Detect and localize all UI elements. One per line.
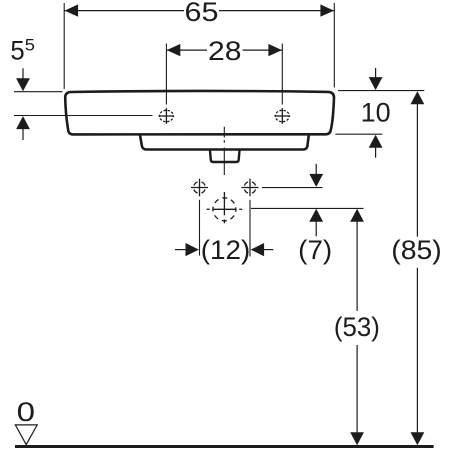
reference line at tap hole level (5.5 dim lower leader): [14, 115, 153, 117]
washbasin lower tier outline: [140, 134, 309, 149]
arrow left of (12) dimension: [175, 249, 187, 251]
reference line top right (basin rim level for 10 and 85): [338, 90, 424, 92]
svg-text:10: 10: [361, 98, 391, 128]
datum triangle (zero level symbol): [15, 425, 37, 445]
up arrow of (7) dimension: [309, 209, 323, 222]
svg-text:(85): (85): [391, 235, 442, 265]
extension line left of 65 dimension: [63, 3, 65, 89]
arrow right of (12) dimension: [251, 243, 265, 256]
arrowhead left of 65: [65, 4, 79, 16]
down arrow of 10 dimension: [375, 68, 377, 78]
right tap hole: [275, 110, 289, 121]
down arrow of 5.5 dimension: [22, 68, 24, 79]
extension line right of 65 dimension: [333, 3, 335, 88]
arrowhead right of 65: [320, 4, 334, 16]
leader line at trap hole level: [251, 207, 364, 209]
(53) dimension line: [350, 209, 364, 222]
svg-text:65: 65: [185, 0, 219, 27]
drain trap box: [210, 149, 240, 162]
reference line at basin top left (5.5 dim upper): [14, 91, 63, 93]
up arrow of 5.5 dimension: [16, 116, 30, 129]
dimension line 65: [64, 10, 184, 12]
left anchor hole: [194, 182, 206, 194]
reference line at basin bottom right (10 dim lower): [335, 133, 382, 135]
drain trap hole: [213, 198, 236, 221]
svg-text:(7): (7): [298, 235, 332, 265]
down arrow of (7) dimension: [315, 164, 317, 175]
vertical centerline of basin: [223, 127, 225, 138]
arrowhead right of 28: [268, 44, 282, 56]
arrowhead left of 28: [167, 44, 181, 56]
extension line left of 28 dimension (above left tap hole): [165, 44, 167, 105]
washbasin body outline: [65, 91, 334, 134]
floor line: [15, 445, 434, 448]
left tap hole: [159, 110, 173, 121]
right anchor hole: [244, 182, 256, 194]
svg-text:5: 5: [25, 36, 35, 55]
extension line below left anchor hole: [199, 200, 201, 256]
svg-text:(12): (12): [201, 235, 251, 265]
svg-text:(53): (53): [334, 312, 380, 342]
svg-text:0: 0: [17, 397, 35, 427]
extension line below right anchor hole: [249, 200, 251, 257]
svg-text:28: 28: [208, 36, 242, 66]
leader line at anchor hole level: [262, 187, 323, 189]
up arrow of 10 dimension: [369, 135, 383, 148]
(85) dimension line: [411, 91, 425, 104]
dimension line 28: [167, 49, 207, 51]
svg-text:5: 5: [10, 36, 24, 66]
extension line right of 28 dimension (above right tap hole): [281, 44, 283, 105]
